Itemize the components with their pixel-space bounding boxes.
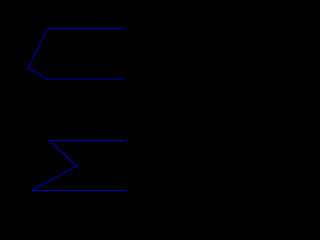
sigma shape (zigzag, open right): [32, 141, 126, 191]
chevron/pennant shape (left-pointing, open right): [28, 29, 124, 80]
